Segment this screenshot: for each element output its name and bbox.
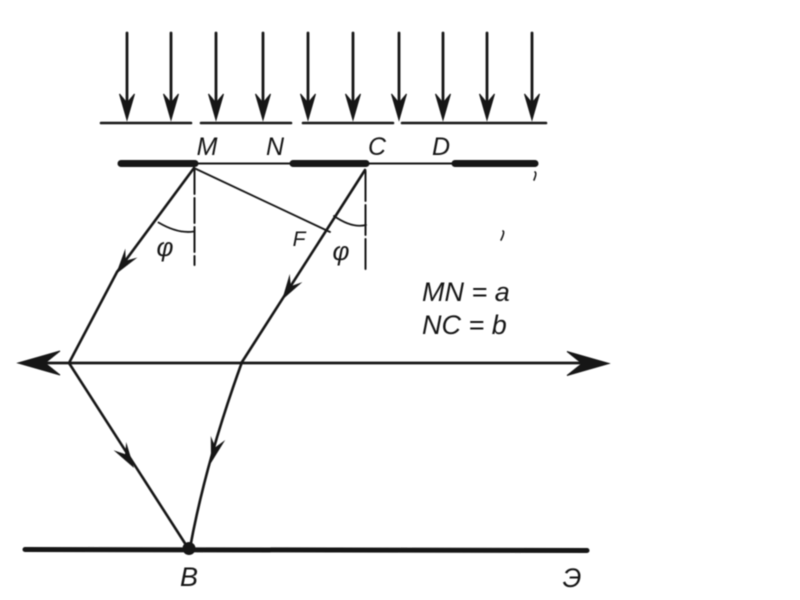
wavefront dashed line segment 1 — [101, 122, 191, 125]
grating thin line between slits — [195, 163, 293, 165]
svg-text:MN = a: MN = a — [422, 277, 510, 307]
incident plane-wave arrow 1 — [120, 33, 135, 120]
grating opaque bar 1 — [121, 160, 195, 167]
diffracted ray from M to lens — [69, 168, 194, 363]
wavefront dashed line segment 3 — [303, 122, 393, 125]
angle arc phi at M — [159, 223, 194, 232]
incident plane-wave arrow 5 — [301, 33, 316, 120]
normal (vertical) line at C — [365, 171, 367, 273]
lens axis double arrow line — [30, 362, 596, 365]
wavefront dashed line segment 2 — [201, 122, 291, 125]
arrowhead on left focused ray — [114, 442, 141, 472]
stray ink mark right of C — [501, 231, 504, 240]
grating opaque bar 3 — [455, 160, 535, 167]
svg-text:C: C — [368, 133, 387, 161]
svg-text:B: B — [180, 562, 198, 592]
incident plane-wave arrow 10 — [525, 33, 540, 120]
arrowhead on ray M — [110, 249, 137, 279]
incident plane-wave arrow 9 — [480, 33, 495, 120]
arrowhead on ray C — [276, 274, 303, 304]
incident plane-wave arrow 7 — [392, 33, 407, 120]
screen line — [25, 550, 587, 551]
svg-text:φ: φ — [157, 232, 174, 262]
incident plane-wave arrow 6 — [346, 33, 361, 120]
incident plane-wave arrow 3 — [209, 33, 224, 120]
focal point B dot — [183, 543, 195, 555]
grating thin line between slits 2 — [366, 163, 455, 165]
incident plane-wave arrow 2 — [164, 33, 179, 120]
angle arc phi at C — [334, 216, 366, 226]
incident plane-wave arrow 4 — [256, 33, 271, 120]
normal (vertical) line at M — [194, 169, 196, 265]
wavefront dashed line segment 4 — [402, 122, 546, 125]
grating opaque bar 2 — [293, 160, 366, 167]
arrowhead on right focused ray — [204, 436, 225, 465]
incident plane-wave arrow 8 — [436, 33, 451, 120]
svg-text:NC = b: NC = b — [422, 310, 507, 340]
ray from lens to focus B (right, slightly curved) — [190, 362, 242, 548]
stray ink mark near grating end — [534, 172, 536, 180]
svg-text:M: M — [197, 133, 218, 161]
right arrowhead of axis — [567, 352, 609, 376]
ray from lens to focus B (left) — [69, 363, 188, 548]
diffracted ray from C to lens — [242, 170, 365, 362]
left arrowhead of axis — [18, 351, 60, 375]
svg-text:F: F — [293, 228, 307, 251]
svg-text:D: D — [432, 133, 450, 161]
svg-text:N: N — [266, 133, 285, 161]
perpendicular MF (path difference construction) — [194, 168, 330, 232]
svg-text:Э: Э — [563, 563, 582, 593]
svg-text:φ: φ — [333, 236, 350, 266]
